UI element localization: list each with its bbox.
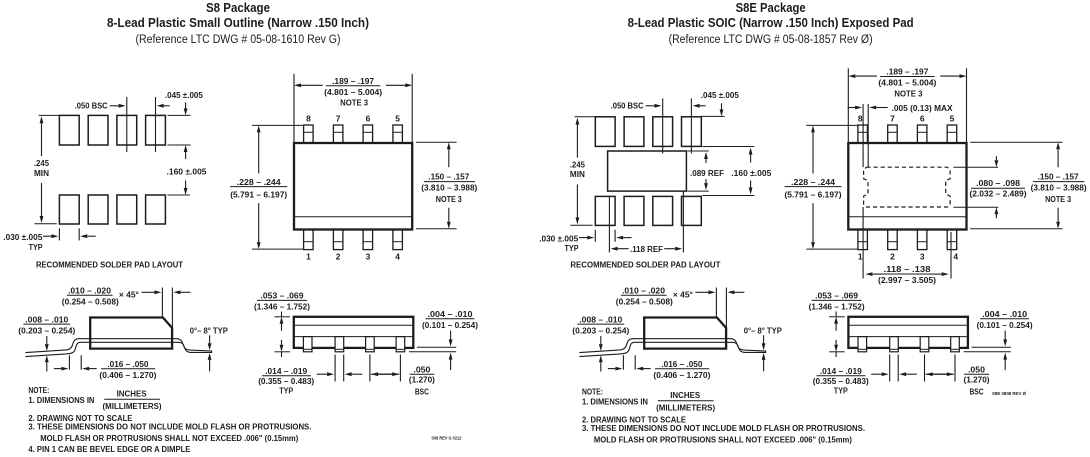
svg-text:.014 – .019: .014 – .019 (820, 366, 862, 376)
svg-text:7: 7 (890, 114, 895, 124)
svg-text:0°– 8° TYP: 0°– 8° TYP (744, 326, 782, 336)
svg-text:.245: .245 (570, 159, 585, 169)
svg-text:NOTE:: NOTE: (582, 387, 603, 397)
svg-text:.045 ±.005: .045 ±.005 (701, 90, 739, 100)
svg-text:(Reference LTC DWG # 05-08-185: (Reference LTC DWG # 05-08-1857 Rev Ø) (669, 32, 873, 46)
svg-text:INCHES: INCHES (117, 389, 147, 399)
svg-text:.014 – .019: .014 – .019 (265, 366, 307, 376)
svg-text:INCHES: INCHES (670, 390, 700, 400)
svg-text:NOTE 3: NOTE 3 (436, 194, 462, 204)
svg-text:(0.355 – 0.483): (0.355 – 0.483) (813, 376, 869, 386)
svg-text:.089 REF: .089 REF (690, 168, 724, 178)
svg-text:.228 – .244: .228 – .244 (791, 177, 835, 187)
svg-text:(1.346 – 1.752): (1.346 – 1.752) (254, 301, 310, 311)
svg-text:TYP: TYP (565, 243, 579, 253)
svg-text:S8E Package: S8E Package (736, 1, 806, 15)
svg-text:.050 BSC: .050 BSC (75, 101, 108, 111)
svg-text:NOTE 3: NOTE 3 (1045, 194, 1071, 204)
svg-text:3. THESE DIMENSIONS DO NOT INC: 3. THESE DIMENSIONS DO NOT INCLUDE MOLD … (582, 423, 865, 433)
svg-text:4. PIN 1 CAN BE BEVEL EDGE OR: 4. PIN 1 CAN BE BEVEL EDGE OR A DIMPLE (28, 444, 190, 454)
svg-text:4: 4 (395, 252, 400, 262)
svg-text:(1.270): (1.270) (964, 375, 990, 385)
svg-text:(MILLIMETERS): (MILLIMETERS) (656, 402, 715, 412)
svg-text:.050 BSC: .050 BSC (611, 101, 644, 111)
svg-text:MIN: MIN (34, 168, 49, 178)
svg-text:1. DIMENSIONS IN: 1. DIMENSIONS IN (28, 395, 94, 405)
svg-text:.189 – .197: .189 – .197 (886, 67, 928, 77)
svg-text:(0.254 – 0.508): (0.254 – 0.508) (616, 296, 673, 306)
svg-text:.045 ±.005: .045 ±.005 (165, 90, 203, 100)
svg-text:× 45°: × 45° (673, 289, 694, 299)
svg-text:(0.406 – 1.270): (0.406 – 1.270) (99, 370, 156, 380)
svg-text:3. THESE DIMENSIONS DO NOT INC: 3. THESE DIMENSIONS DO NOT INCLUDE MOLD … (28, 422, 311, 432)
svg-text:BSC: BSC (970, 386, 984, 396)
svg-text:.010 – .020: .010 – .020 (622, 285, 665, 295)
svg-text:S8 Package: S8 Package (206, 1, 270, 15)
svg-text:(Reference LTC DWG # 05-08-161: (Reference LTC DWG # 05-08-1610 Rev G) (136, 32, 341, 46)
svg-text:× 45°: × 45° (119, 289, 140, 299)
svg-text:(2.997 – 3.505): (2.997 – 3.505) (878, 275, 936, 285)
svg-text:.245: .245 (34, 158, 49, 168)
svg-text:(3.810 – 3.988): (3.810 – 3.988) (421, 183, 477, 193)
svg-text:3: 3 (366, 252, 371, 262)
svg-text:(2.032 – 2.489): (2.032 – 2.489) (970, 189, 1027, 199)
svg-text:S08 REV G 0212: S08 REV G 0212 (431, 436, 461, 441)
svg-text:8: 8 (306, 114, 311, 124)
svg-text:8: 8 (858, 114, 863, 124)
svg-text:.189 – .197: .189 – .197 (332, 76, 374, 86)
svg-text:1: 1 (306, 252, 311, 262)
svg-text:.150 – .157: .150 – .157 (1038, 172, 1079, 182)
svg-text:(0.406 – 1.270): (0.406 – 1.270) (653, 370, 710, 380)
svg-text:MIN: MIN (570, 169, 585, 179)
svg-text:TYP: TYP (834, 386, 848, 396)
svg-text:5: 5 (950, 114, 955, 124)
svg-text:.050: .050 (413, 364, 430, 374)
svg-text:(5.791 – 6.197): (5.791 – 6.197) (785, 190, 842, 200)
svg-text:6: 6 (366, 114, 371, 124)
svg-text:.050: .050 (968, 364, 985, 374)
svg-text:1: 1 (858, 252, 863, 262)
svg-text:TYP: TYP (279, 386, 293, 396)
svg-text:RECOMMENDED SOLDER PAD LAYOUT: RECOMMENDED SOLDER PAD LAYOUT (570, 260, 721, 270)
svg-text:BSC: BSC (415, 386, 429, 396)
svg-text:(0.254 – 0.508): (0.254 – 0.508) (62, 296, 119, 306)
svg-text:NOTE:: NOTE: (28, 385, 49, 395)
svg-text:0°– 8° TYP: 0°– 8° TYP (190, 326, 228, 336)
svg-text:S8E 0808 REV Ø: S8E 0808 REV Ø (992, 391, 1026, 396)
svg-text:.005 (0.13) MAX: .005 (0.13) MAX (892, 103, 953, 113)
svg-text:3: 3 (920, 252, 925, 262)
svg-text:2: 2 (890, 252, 895, 262)
svg-text:(5.791 – 6.197): (5.791 – 6.197) (230, 190, 287, 200)
svg-text:.053 – .069: .053 – .069 (815, 291, 858, 301)
svg-text:.008 – .010: .008 – .010 (579, 314, 622, 324)
svg-text:.010 – .020: .010 – .020 (68, 285, 111, 295)
svg-text:.004 – .010: .004 – .010 (982, 309, 1027, 319)
svg-text:(0.101 – 0.254): (0.101 – 0.254) (422, 320, 478, 330)
svg-text:.118 – .138: .118 – .138 (884, 264, 931, 274)
svg-text:(4.801 – 5.004): (4.801 – 5.004) (878, 78, 936, 88)
svg-text:8-Lead Plastic SOIC (Narrow .1: 8-Lead Plastic SOIC (Narrow .150 Inch) E… (628, 16, 914, 30)
svg-text:.160 ±.005: .160 ±.005 (167, 166, 207, 176)
svg-text:.030 ±.005: .030 ±.005 (3, 232, 42, 242)
svg-text:.080 – .098: .080 – .098 (976, 178, 1020, 188)
svg-text:8-Lead Plastic Small Outline (: 8-Lead Plastic Small Outline (Narrow .15… (107, 16, 369, 30)
svg-text:NOTE 3: NOTE 3 (340, 98, 368, 108)
svg-text:MOLD FLASH OR PROTRUSIONS SHAL: MOLD FLASH OR PROTRUSIONS SHALL NOT EXCE… (594, 434, 852, 444)
svg-text:6: 6 (920, 114, 925, 124)
svg-text:NOTE 3: NOTE 3 (894, 88, 922, 98)
svg-text:(0.355 – 0.483): (0.355 – 0.483) (258, 376, 314, 386)
svg-text:(4.801 – 5.004): (4.801 – 5.004) (324, 87, 382, 97)
svg-text:.008 – .010: .008 – .010 (25, 314, 68, 324)
svg-text:5: 5 (395, 114, 400, 124)
svg-text:(0.101 – 0.254): (0.101 – 0.254) (977, 320, 1033, 330)
svg-text:(MILLIMETERS): (MILLIMETERS) (103, 401, 162, 411)
svg-text:(1.346 – 1.752): (1.346 – 1.752) (809, 301, 865, 311)
svg-text:7: 7 (336, 114, 341, 124)
svg-text:1. DIMENSIONS IN: 1. DIMENSIONS IN (582, 396, 648, 406)
svg-text:.150 – .157: .150 – .157 (428, 172, 469, 182)
svg-text:.016 – .050: .016 – .050 (107, 359, 148, 369)
svg-text:TYP: TYP (29, 242, 43, 252)
svg-text:.160 ±.005: .160 ±.005 (731, 168, 771, 178)
svg-text:(1.270): (1.270) (409, 375, 435, 385)
svg-text:.004 – .010: .004 – .010 (428, 309, 473, 319)
svg-text:(0.203 – 0.254): (0.203 – 0.254) (572, 325, 629, 335)
svg-text:.053 – .069: .053 – .069 (261, 291, 304, 301)
svg-text:.118 REF: .118 REF (630, 244, 663, 254)
svg-text:(3.810 – 3.988): (3.810 – 3.988) (1031, 183, 1087, 193)
svg-text:.030 ±.005: .030 ±.005 (539, 234, 578, 244)
svg-text:.228 – .244: .228 – .244 (237, 177, 281, 187)
svg-text:4: 4 (953, 252, 958, 262)
svg-text:MOLD FLASH OR PROTRUSIONS SHAL: MOLD FLASH OR PROTRUSIONS SHALL NOT EXCE… (40, 433, 298, 443)
svg-text:2: 2 (336, 252, 341, 262)
svg-text:RECOMMENDED SOLDER PAD LAYOUT: RECOMMENDED SOLDER PAD LAYOUT (36, 260, 184, 270)
svg-text:(0.203 – 0.254): (0.203 – 0.254) (18, 325, 75, 335)
svg-text:.016 – .050: .016 – .050 (661, 359, 702, 369)
